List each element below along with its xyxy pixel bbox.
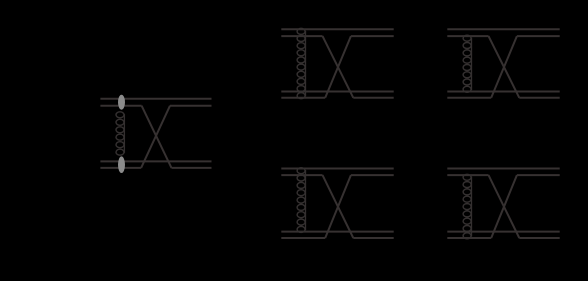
(d) bottom-middle: bottom inner quark line (continuous) bbox=[281, 231, 393, 233]
(a) left: bottom outer quark line, left segment bbox=[100, 167, 141, 169]
(d) bottom-middle: bottom outer quark line, right segment bbox=[353, 237, 393, 239]
(d) bottom-middle: top outer quark line (continuous) bbox=[281, 168, 393, 170]
(a) left: lower effective-vertex blob bbox=[118, 156, 125, 173]
(a) left: crossing quark line (top-left to bottom-right) bbox=[142, 106, 172, 168]
gluon (b) top-middle: right strand bbox=[305, 31, 307, 97]
gluon (d) bottom-middle: coil loops bbox=[297, 168, 305, 233]
(d) bottom-middle: top inner quark line, right segment bbox=[351, 174, 394, 176]
(e) bottom-right: bottom inner quark line (continuous) bbox=[447, 231, 559, 233]
(b) top-middle: crossing quark line (bottom-left to top-right) bbox=[325, 36, 351, 98]
(e) bottom-right: top inner quark line, right segment bbox=[517, 174, 560, 176]
(b) top-middle: bottom outer quark line, left segment bbox=[281, 97, 325, 99]
(c) top-right: crossing quark line (bottom-left to top-right) bbox=[491, 36, 517, 98]
(d) bottom-middle: top inner quark line, left segment bbox=[281, 174, 322, 176]
(b) top-middle: bottom inner quark line (continuous) bbox=[281, 91, 393, 93]
(a) left: crossing quark line (bottom-left to top-right) bbox=[141, 106, 170, 168]
(c) top-right: bottom outer quark line, left segment bbox=[447, 97, 491, 99]
(e) bottom-right: crossing quark line (top-left to bottom-right) bbox=[489, 175, 520, 238]
gluon (e) bottom-right: coil loops bbox=[463, 174, 471, 239]
gluon (a) left: right strand bbox=[123, 114, 125, 153]
(d) bottom-middle: crossing quark line (bottom-left to top-right) bbox=[325, 175, 351, 238]
gluon (d) bottom-middle: right strand bbox=[305, 170, 307, 230]
diagram (b) top-middle bbox=[281, 28, 393, 98]
gluon (b) top-middle: coil loops bbox=[297, 28, 305, 98]
gluon (c) top-right: coil loops bbox=[463, 35, 471, 92]
(a) left: top inner quark line, left segment bbox=[100, 105, 141, 107]
gluon (a) left: coil loops bbox=[116, 112, 124, 155]
diagram (d) bottom-middle bbox=[281, 168, 393, 238]
(c) top-right: top inner quark line, left segment bbox=[447, 35, 488, 37]
(a) left: top inner quark line, right segment bbox=[170, 105, 212, 107]
(e) bottom-right: crossing quark line (bottom-left to top-right) bbox=[491, 175, 517, 238]
diagram (a) left bbox=[100, 95, 211, 173]
(b) top-middle: crossing quark line (top-left to bottom-right) bbox=[323, 36, 354, 98]
gluon (e) bottom-right: right strand bbox=[471, 177, 473, 237]
diagram (c) top-right bbox=[447, 29, 559, 98]
gluon (c) top-right: right strand bbox=[471, 38, 473, 90]
(a) left: upper effective-vertex blob bbox=[118, 95, 125, 110]
(b) top-middle: top outer quark line (continuous) bbox=[281, 28, 393, 30]
(c) top-right: top outer quark line (continuous) bbox=[447, 28, 559, 30]
(b) top-middle: top inner quark line, left segment bbox=[281, 35, 322, 37]
(a) left: top outer quark line (continuous) bbox=[100, 98, 211, 100]
(d) bottom-middle: crossing quark line (top-left to bottom-right) bbox=[323, 175, 354, 238]
(c) top-right: crossing quark line (top-left to bottom-right) bbox=[489, 36, 520, 98]
(e) bottom-right: top outer quark line (continuous) bbox=[447, 168, 559, 170]
(e) bottom-right: bottom outer quark line, right segment bbox=[519, 237, 559, 239]
(d) bottom-middle: bottom outer quark line, left segment bbox=[281, 237, 325, 239]
(c) top-right: bottom outer quark line, right segment bbox=[519, 97, 559, 99]
(c) top-right: bottom inner quark line (continuous) bbox=[447, 91, 559, 93]
diagram (e) bottom-right bbox=[447, 169, 559, 239]
(e) bottom-right: bottom outer quark line, left segment bbox=[447, 237, 491, 239]
(e) bottom-right: top inner quark line, left segment bbox=[447, 174, 488, 176]
(b) top-middle: bottom outer quark line, right segment bbox=[353, 97, 393, 99]
(b) top-middle: top inner quark line, right segment bbox=[351, 35, 394, 37]
(a) left: bottom outer quark line, right segment bbox=[172, 167, 212, 169]
(a) left: bottom inner quark line (continuous) bbox=[100, 160, 211, 162]
(c) top-right: top inner quark line, right segment bbox=[517, 35, 560, 37]
